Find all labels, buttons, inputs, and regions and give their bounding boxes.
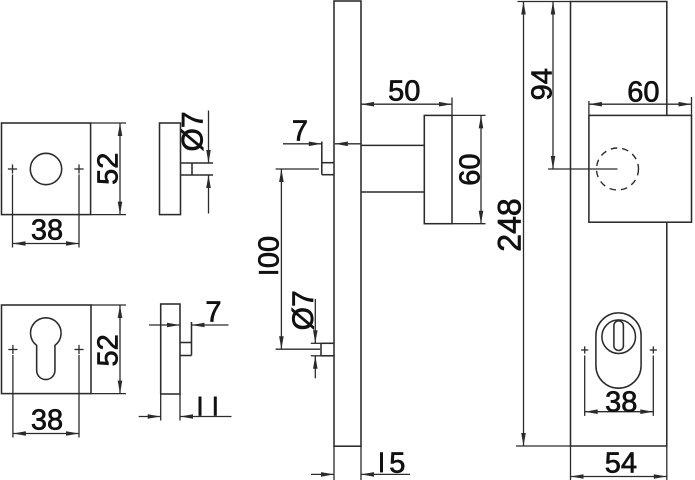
upper spindle stub of L1: [322, 163, 334, 175]
extension line left for dim 54 of L2: [570, 446, 572, 480]
extension line top for dim 100 of L1: [276, 168, 319, 170]
svg-text:248: 248: [491, 198, 527, 251]
dimension 15 arrows of L1: [311, 472, 410, 477]
centre line to handle hole of L2: [548, 168, 618, 170]
dimension line 60 of L1: [479, 115, 484, 223]
svg-text:Ø7: Ø7: [287, 290, 320, 330]
extension line right for dim 38 of L2: [652, 356, 654, 416]
extension line top for dim 60 of L1: [452, 114, 486, 116]
svg-text:50: 50: [388, 75, 420, 107]
dimension line 54 of L2: [571, 474, 667, 479]
euro profile cylinder hole of P3: [31, 318, 62, 380]
key slot of L2: [614, 321, 624, 351]
cylinder core circle of L2: [602, 320, 636, 354]
dimension arrows stub dia of L1: [313, 299, 318, 378]
dimension line 52 of P1: [118, 123, 123, 215]
extension line bottom for dim 100 of L1: [276, 348, 320, 350]
svg-text:38: 38: [605, 386, 637, 418]
dimension line 52 of P3: [118, 305, 123, 394]
long plate L1 outline (side view): [334, 1, 361, 446]
dimension line 248 of L2: [521, 2, 526, 447]
screw mark left of P3: [8, 345, 17, 354]
handle hole in plate P1: [30, 153, 61, 184]
svg-text:00: 00: [253, 236, 285, 268]
spindle stub of P2: [181, 163, 214, 175]
dimension line 38 of P3: [13, 431, 79, 436]
svg-text:Ø7: Ø7: [177, 111, 210, 151]
svg-text:7: 7: [205, 296, 221, 328]
extension line left for dim 38 of P3: [12, 355, 14, 438]
dimension arrow upper for stub dia of P2: [206, 111, 211, 164]
extension line right for dim 38 of P1: [78, 175, 80, 248]
extension line left for dim 38 of P1: [12, 175, 14, 248]
cylinder stub of P4: [180, 343, 192, 356]
value label 15 of L1: [380, 452, 383, 472]
extension line left for dim 60 of L2: [588, 101, 590, 115]
long plate L2 outline (front view): [571, 2, 667, 447]
extension line right for dim 11 of P4: [179, 394, 181, 421]
value label 11 of P4: [199, 397, 202, 416]
screw mark right of L2: [650, 346, 657, 353]
plate P2 outline (short escutcheon, side view): [160, 123, 181, 215]
extension line bottom for dim 52 of P3: [91, 393, 126, 395]
extension line stub face upper of L1: [321, 142, 323, 175]
dimension 11 arrows of P4: [139, 414, 232, 419]
cylinder guard oval of L2: [596, 313, 641, 388]
plate P4 outline (cylinder escutcheon, side view): [161, 304, 180, 394]
svg-text:60: 60: [627, 77, 659, 109]
extension line left for dim 15 of L1: [333, 446, 335, 480]
extension line bottom for dim 60 of L1: [452, 223, 486, 225]
lower cylinder stub of L1: [321, 343, 334, 356]
extension line for dim 50 of L1: [451, 98, 453, 116]
dimension 7 arrows of L1: [283, 142, 361, 147]
extension line right for dim 15 of L1: [360, 446, 362, 480]
dimension 7 arrows of P4: [149, 323, 229, 328]
svg-text:52: 52: [92, 334, 124, 366]
dimension line 94 of L2: [551, 2, 556, 170]
dimension arrow lower for stub dia of P2: [206, 175, 211, 214]
top block of L2 (handle rose cover): [589, 115, 692, 222]
extension line right for dim 54 of L2: [666, 446, 668, 480]
plate P3 outline (cylinder escutcheon, front view): [2, 305, 92, 394]
extension lines for stub dia of L1: [311, 343, 321, 356]
extension line left for dim 11 of P4: [160, 394, 162, 421]
plate P1 outline (short escutcheon, front view): [2, 123, 91, 215]
extension line right for dim 38 of P3: [78, 355, 80, 438]
extension line top for dim 52 of P1: [91, 122, 126, 124]
screw mark right of P3: [74, 345, 83, 354]
handle neck of L1: [361, 145, 424, 192]
screw mark left of P1: [8, 164, 17, 173]
screw mark left of L2: [581, 346, 588, 353]
dimension line 38 of L2: [585, 409, 654, 414]
svg-text:94: 94: [526, 68, 558, 100]
hidden handle hole of L2: [597, 148, 639, 190]
svg-text:7: 7: [292, 116, 308, 148]
svg-text:54: 54: [605, 447, 637, 479]
handle grip of L1: [424, 115, 452, 223]
extension line right for dim 60 of L2: [691, 97, 693, 115]
svg-text:38: 38: [31, 214, 63, 246]
extension line bottom for dim 52 of P1: [91, 214, 126, 216]
extension line stub face of P4: [191, 322, 193, 356]
screw mark right of P1: [74, 164, 83, 173]
dimension line 50 of L1: [361, 102, 452, 107]
dimension line 60 of L2: [589, 102, 692, 107]
extension line bottom for dim 248 of L2: [516, 445, 571, 447]
extension line top for dim 52 of P3: [91, 304, 126, 306]
dimension line 100 of L1: [279, 169, 284, 349]
svg-text:60: 60: [454, 153, 486, 185]
extension line left for dim 38 of L2: [584, 356, 586, 416]
svg-text:5: 5: [389, 447, 405, 479]
svg-text:52: 52: [92, 153, 124, 185]
dimension line 38 of P1: [13, 241, 80, 246]
svg-text:38: 38: [31, 405, 63, 437]
extension line top for dim 248 of L2: [518, 1, 571, 3]
